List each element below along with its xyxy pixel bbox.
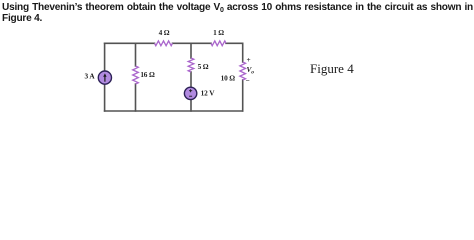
svg-text:3 A: 3 A [85, 71, 96, 80]
svg-text:+: + [247, 55, 251, 64]
svg-text:Figure 4: Figure 4 [310, 61, 354, 76]
svg-text:1 Ω: 1 Ω [213, 28, 224, 37]
svg-text:12 V: 12 V [201, 88, 216, 97]
svg-text:5 Ω: 5 Ω [198, 62, 209, 71]
svg-text:16 Ω: 16 Ω [140, 70, 155, 79]
svg-text:10 Ω: 10 Ω [221, 74, 236, 83]
svg-text:Vo: Vo [247, 65, 255, 76]
svg-text:−: − [246, 76, 250, 85]
svg-text:4 Ω: 4 Ω [159, 28, 170, 37]
